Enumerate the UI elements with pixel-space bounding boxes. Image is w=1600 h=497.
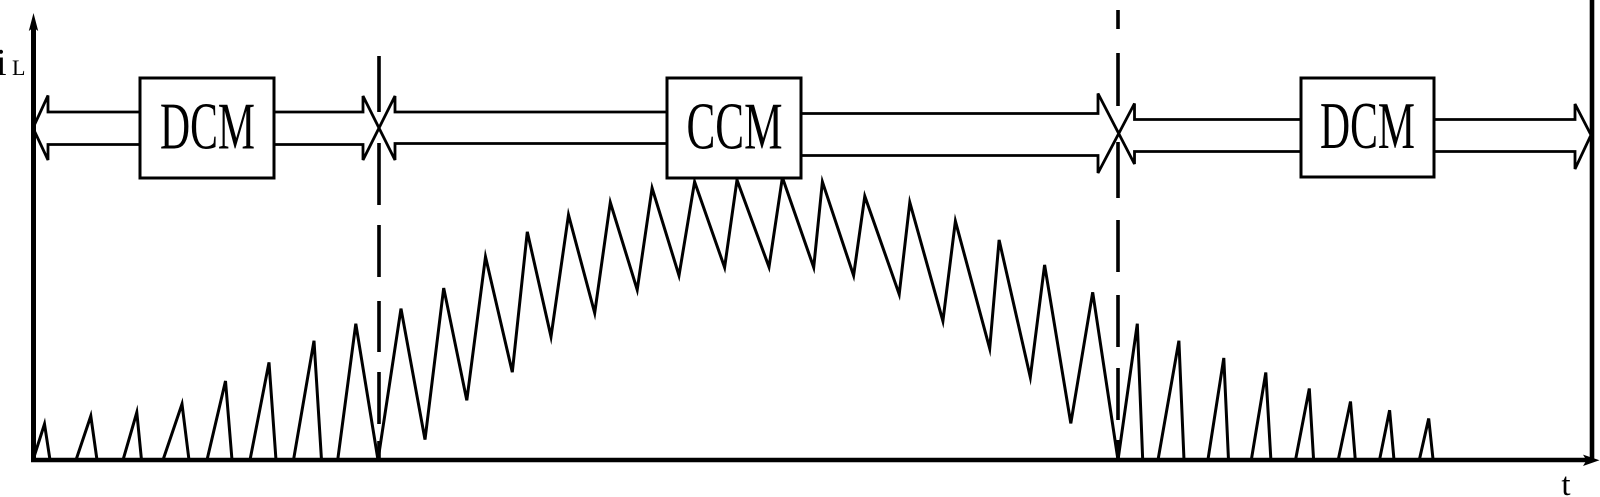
svg-text:t: t [1561,467,1570,497]
x-axis arrowhead [1583,455,1600,466]
right double-arrow band: DCM2 box to right border [1433,104,1591,169]
svg-text:L: L [12,55,25,80]
box CCM [667,78,801,178]
x-axis [31,458,1588,463]
box DCM (right) [1301,78,1434,177]
svg-text:DCM: DCM [1320,89,1415,163]
left double-arrow band: axis to DCM1 box [33,96,141,161]
band DCM1 to X1 and X1 to CCM box (crossed arrowheads at dashed line 1) [273,96,668,160]
dashed boundary line 2 (CCM/DCM) [1116,10,1120,461]
y-axis arrowhead [29,13,38,31]
svg-text:DCM: DCM [160,90,255,164]
right border vertical line [1590,0,1595,461]
box DCM (left) [140,78,274,178]
dashed boundary line 1 (DCM/CCM) [377,56,381,461]
inductor current waveform iL [33,178,1433,461]
y-axis [31,26,36,462]
svg-text:CCM: CCM [687,90,783,164]
band CCM box to X2 and X2 to DCM2 box (crossed arrowheads at dashed line 2) [800,94,1302,174]
svg-text:i: i [0,42,7,84]
